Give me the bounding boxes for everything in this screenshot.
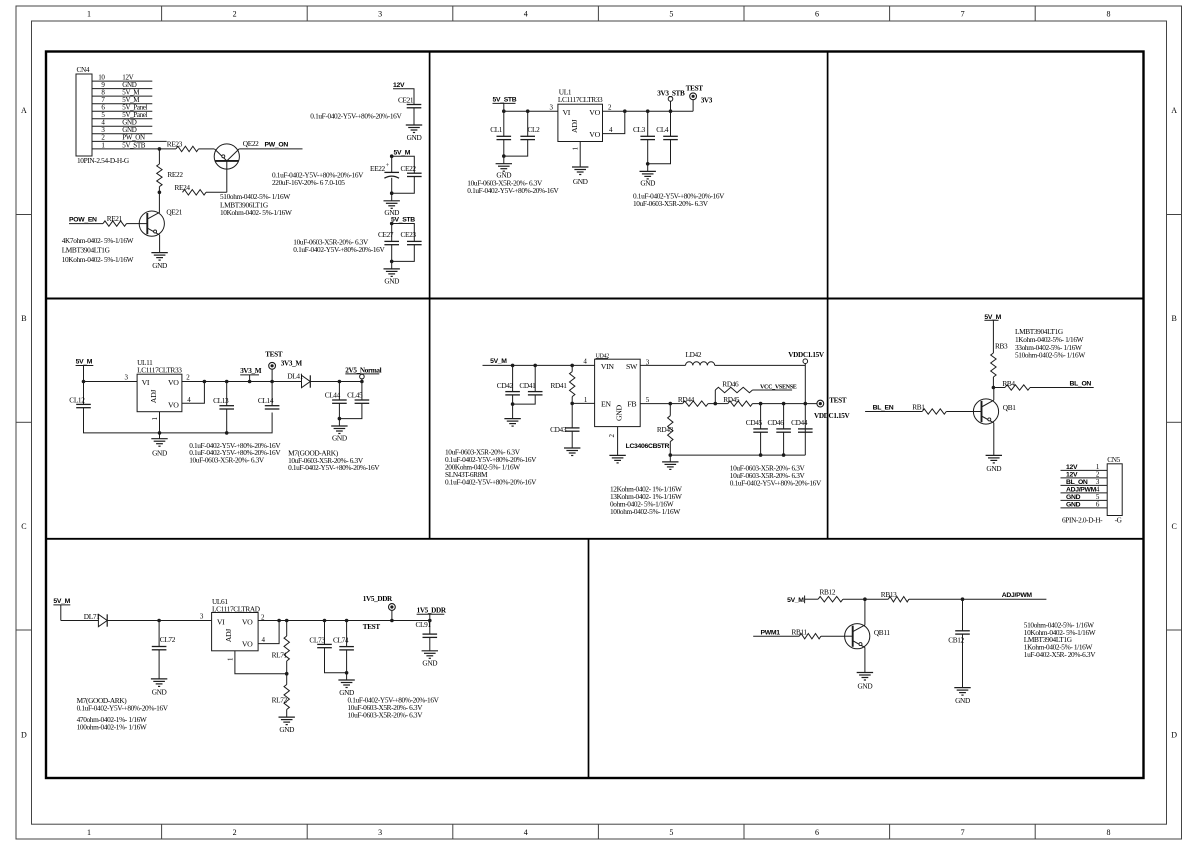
- svg-text:GND: GND: [1066, 494, 1081, 501]
- wire CL73 CL74 gnd: [325, 648, 349, 680]
- wire UL1 VO pin4: [603, 109, 627, 133]
- wire CL72 gnd: [158, 650, 160, 679]
- svg-text:SW: SW: [626, 362, 638, 371]
- capacitor CD46: [768, 404, 791, 456]
- testpoint TEST 1V5_DDR: [363, 595, 396, 631]
- wire UL61 VO pin4: [258, 621, 279, 644]
- resistor RD41: [551, 365, 575, 403]
- svg-text:CD45: CD45: [746, 418, 763, 427]
- wire input to UL1: [502, 109, 558, 113]
- wire RE23 to QE22: [199, 148, 215, 150]
- resistor RB4: [1002, 379, 1030, 390]
- capacitor CL2: [520, 111, 540, 139]
- IC UL11 LC1117CLTR33: [137, 358, 191, 421]
- testpoint TEST VDDC: [817, 396, 847, 407]
- svg-text:CL91: CL91: [416, 620, 432, 629]
- svg-text:LC1117CLTRAD: LC1117CLTRAD: [212, 604, 260, 613]
- capacitor CD44: [791, 418, 813, 432]
- svg-text:DL41: DL41: [287, 372, 303, 381]
- svg-text:VI: VI: [142, 378, 150, 387]
- wire QE22 base down: [226, 161, 228, 192]
- ground CE27: [384, 269, 400, 285]
- svg-text:EN: EN: [601, 400, 611, 409]
- svg-text:CE23: CE23: [401, 230, 417, 239]
- svg-text:GND: GND: [640, 178, 655, 187]
- IC UL61 LC1117CLTRAD: [212, 597, 266, 661]
- svg-text:5V_M: 5V_M: [53, 598, 70, 605]
- wire UL1 ADJ: [579, 142, 581, 168]
- IC UL1 LC1117CLTR33: [550, 88, 614, 151]
- svg-text:5V_STB: 5V_STB: [493, 97, 517, 104]
- svg-text:RL72: RL72: [272, 695, 288, 704]
- ground CL74: [338, 680, 354, 697]
- resistor RE22: [157, 149, 184, 192]
- svg-text:B: B: [1172, 314, 1177, 323]
- svg-text:5V_M: 5V_M: [984, 314, 1001, 321]
- svg-text:0.1uF-0402-Y5V-+80%-20%-16V: 0.1uF-0402-Y5V-+80%-20%-16V: [467, 186, 559, 195]
- resistor RE23: [167, 140, 199, 152]
- ground QB11: [857, 673, 873, 691]
- wire SW: [640, 364, 685, 366]
- svg-text:VDDC1.15V: VDDC1.15V: [814, 412, 851, 420]
- wire QE21 collector: [159, 211, 161, 213]
- wire UL61 ADJ: [235, 651, 289, 676]
- svg-text:VO: VO: [168, 378, 179, 387]
- svg-text:5V_STB: 5V_STB: [122, 141, 145, 149]
- wire CL91 gnd: [429, 637, 431, 650]
- svg-text:GND: GND: [986, 464, 1001, 473]
- svg-text:10uF-0603-X5R-20%- 6.3V: 10uF-0603-X5R-20%- 6.3V: [633, 199, 709, 208]
- svg-text:RD45: RD45: [723, 395, 740, 404]
- svg-text:CL12: CL12: [69, 395, 85, 404]
- svg-text:CL73: CL73: [309, 636, 325, 645]
- wire UD42 gnd pin: [617, 427, 619, 456]
- svg-text:RB13: RB13: [881, 590, 897, 599]
- transistor QE21: [139, 208, 183, 237]
- capacitor CE23: [401, 230, 422, 245]
- wire RE21 to QE21: [127, 223, 140, 225]
- capacitor CD43: [550, 403, 579, 434]
- svg-text:VI: VI: [563, 108, 571, 117]
- svg-text:LMBT3904LT1G: LMBT3904LT1G: [62, 246, 111, 255]
- connector CN5: [1061, 455, 1123, 524]
- svg-text:TEST: TEST: [363, 623, 381, 631]
- values CL3 CL4: [633, 192, 725, 208]
- capacitor CE27: [378, 224, 399, 245]
- label VCC_VSENSE: [753, 384, 797, 390]
- svg-text:10PIN-2.54-D-H-G: 10PIN-2.54-D-H-G: [77, 156, 130, 165]
- node 5V_STB input: [493, 97, 517, 112]
- svg-text:DL71: DL71: [84, 612, 100, 621]
- svg-text:RB1: RB1: [912, 402, 925, 411]
- ground CD42: [504, 419, 520, 427]
- svg-text:CL1: CL1: [490, 125, 503, 134]
- svg-text:A: A: [21, 106, 27, 115]
- IC UD42 LC3406CB5TR: [595, 353, 650, 437]
- svg-text:C: C: [21, 522, 26, 531]
- wire CL13 to bus: [226, 409, 228, 433]
- svg-text:GND: GND: [614, 404, 623, 421]
- values QE21 group: [62, 236, 134, 264]
- svg-text:GND: GND: [152, 448, 167, 457]
- svg-text:3V3: 3V3: [701, 97, 713, 105]
- node 5V_M ddr: [53, 598, 70, 621]
- node 5V_M: [390, 149, 414, 173]
- svg-text:10Kohm-0402- 5%-1/16W: 10Kohm-0402- 5%-1/16W: [220, 208, 292, 217]
- inductor LD42: [686, 350, 715, 365]
- svg-text:ADJ: ADJ: [224, 629, 233, 643]
- wire CL12 bottom bus: [84, 408, 273, 435]
- svg-text:3V3_M: 3V3_M: [281, 360, 303, 368]
- svg-text:0.1uF-0402-Y5V-+80%-20%-16V: 0.1uF-0402-Y5V-+80%-20%-16V: [310, 112, 402, 121]
- values QB11 group: [1024, 620, 1096, 659]
- capacitor CL14: [258, 382, 280, 410]
- values UL11 caps: [189, 441, 281, 465]
- svg-text:5V_M: 5V_M: [394, 149, 411, 156]
- capacitor CL1: [490, 111, 511, 139]
- wire UL11 output: [204, 380, 301, 384]
- wire POW_EN: [69, 217, 103, 224]
- capacitor CL45: [347, 382, 369, 404]
- svg-text:12V: 12V: [1066, 464, 1078, 471]
- capacitor CD41: [519, 365, 542, 395]
- wire QB11 collector: [864, 599, 866, 625]
- svg-text:RE22: RE22: [167, 170, 183, 179]
- resistor RB3: [991, 342, 1008, 388]
- svg-text:5: 5: [669, 10, 673, 19]
- capacitor CL74: [333, 621, 354, 650]
- node 5V_M QB1: [984, 314, 1001, 353]
- svg-text:3: 3: [378, 10, 382, 19]
- wire CL44 CL45 gnd: [338, 403, 362, 426]
- wire 5V_STB net: [158, 147, 176, 151]
- svg-text:POW_EN: POW_EN: [69, 217, 97, 224]
- wire QB1 emitter: [993, 423, 995, 456]
- svg-text:3V3_M: 3V3_M: [240, 367, 262, 375]
- svg-text:QE22: QE22: [243, 139, 259, 148]
- wire QE21 emitter: [159, 235, 161, 253]
- wire bottom bus: [669, 453, 806, 457]
- wire CD42 CD41 gnd: [511, 395, 535, 419]
- svg-text:TEST: TEST: [686, 85, 704, 93]
- values DL41 caps: [288, 448, 380, 472]
- svg-text:2: 2: [233, 10, 237, 19]
- capacitor CL4: [656, 111, 678, 139]
- ground QE21: [151, 253, 167, 270]
- node 5V_STB: [390, 217, 415, 242]
- svg-text:4: 4: [524, 10, 528, 19]
- svg-text:7: 7: [961, 10, 965, 19]
- wire CE27 CE23 gnd: [390, 245, 414, 269]
- wire EE22 CE22 gnd: [390, 177, 414, 196]
- svg-text:LC3406CB5TR: LC3406CB5TR: [626, 443, 670, 450]
- capacitor CL12: [69, 382, 91, 408]
- svg-text:QB11: QB11: [874, 628, 890, 637]
- wire FB: [640, 402, 672, 406]
- wire to DL71: [61, 620, 99, 622]
- wire UL11 VO pin4: [182, 380, 206, 404]
- node 5V_M input: [76, 359, 94, 382]
- svg-text:ADJ: ADJ: [149, 390, 158, 404]
- label 3V3_M right: [281, 360, 303, 368]
- testpoint TEST 3V3_M: [265, 351, 283, 382]
- svg-text:7: 7: [961, 828, 965, 837]
- connector CN4: [76, 65, 167, 165]
- label LC3406CB5TR: [626, 443, 670, 450]
- wire DL41 to CL44: [310, 380, 363, 384]
- svg-text:A: A: [1171, 106, 1177, 115]
- svg-text:GND: GND: [573, 177, 588, 186]
- resistor RD44: [670, 395, 715, 406]
- wire UL11 VO pin2: [182, 381, 205, 383]
- svg-text:GND: GND: [279, 725, 294, 734]
- svg-text:GND: GND: [152, 688, 167, 697]
- svg-text:VO: VO: [242, 639, 253, 648]
- svg-text:4: 4: [524, 828, 528, 837]
- resistor RB11: [792, 627, 821, 639]
- resistor RB12: [818, 587, 843, 602]
- svg-text:CL44: CL44: [325, 391, 341, 400]
- diode DL41: [287, 372, 310, 388]
- resistor RE24: [175, 183, 207, 195]
- svg-text:10Kohm-0402- 5%-1/16W: 10Kohm-0402- 5%-1/16W: [62, 255, 134, 264]
- svg-text:CL3: CL3: [633, 125, 646, 134]
- wire input to UL11: [82, 374, 137, 384]
- svg-text:C: C: [1172, 522, 1177, 531]
- wire UL1 output: [625, 109, 693, 113]
- svg-text:RD44: RD44: [678, 395, 695, 404]
- svg-text:CE22: CE22: [401, 164, 417, 173]
- capacitor CE22: [401, 164, 422, 177]
- svg-text:GND: GND: [422, 658, 437, 667]
- svg-text:VO: VO: [589, 130, 600, 139]
- svg-text:2: 2: [233, 828, 237, 837]
- wire RB1 to QB1: [946, 411, 973, 413]
- svg-text:CE21: CE21: [398, 96, 414, 105]
- port VDDC1.15V: [788, 351, 825, 365]
- svg-text:5V_M: 5V_M: [76, 359, 93, 366]
- svg-text:EE22: EE22: [370, 164, 386, 173]
- transistor QB1: [973, 399, 1016, 424]
- svg-text:5V_M: 5V_M: [490, 358, 507, 365]
- wire PW_ON: [239, 142, 302, 149]
- svg-text:5V_M: 5V_M: [787, 597, 804, 604]
- svg-text:0.1uF-0402-Y5V-+80%-20%-16V: 0.1uF-0402-Y5V-+80%-20%-16V: [288, 463, 380, 472]
- resistor RD43: [657, 404, 674, 456]
- resistor RL72: [272, 674, 290, 717]
- wire gnd stub: [391, 193, 393, 201]
- values CL1 CL2: [467, 179, 559, 195]
- svg-text:D: D: [1171, 730, 1177, 739]
- svg-text:RD41: RD41: [551, 381, 568, 390]
- wire RB4 node: [992, 386, 1005, 390]
- svg-text:6PIN-2.0-D-H-: 6PIN-2.0-D-H-: [1062, 515, 1103, 524]
- svg-text:VI: VI: [217, 617, 225, 626]
- ground EE22: [384, 201, 400, 217]
- svg-text:GND: GND: [1066, 501, 1081, 508]
- svg-text:CL74: CL74: [333, 636, 349, 645]
- svg-text:RB4: RB4: [1002, 379, 1015, 388]
- wire BL_ON: [1030, 381, 1094, 388]
- svg-text:LD42: LD42: [686, 350, 702, 359]
- wire CE21 to gnd: [413, 108, 415, 125]
- svg-text:RE21: RE21: [107, 214, 123, 223]
- svg-text:GND: GND: [152, 261, 167, 270]
- ground UL1 ADJ: [572, 167, 588, 186]
- svg-text:3: 3: [378, 828, 382, 837]
- values EE22 CE22: [272, 171, 364, 188]
- label 3V3_M stub: [240, 367, 262, 382]
- svg-text:CL4: CL4: [656, 125, 669, 134]
- svg-text:-G: -G: [1115, 515, 1123, 524]
- svg-text:CD42: CD42: [497, 381, 514, 390]
- svg-text:1: 1: [87, 10, 91, 19]
- ground QB1: [986, 455, 1002, 473]
- svg-text:BL_EN: BL_EN: [873, 404, 894, 411]
- capacitor CL91: [416, 620, 438, 637]
- svg-text:220uF-16V-20%- 6 7.0-105: 220uF-16V-20%- 6 7.0-105: [272, 178, 345, 187]
- svg-text:CL13: CL13: [213, 396, 229, 405]
- wire UL11 ADJ: [159, 412, 161, 439]
- svg-text:GND: GND: [332, 433, 347, 442]
- wire CL1 CL2 gnd: [502, 140, 528, 164]
- values CE27 CE23: [293, 238, 385, 254]
- svg-text:RE24: RE24: [175, 183, 191, 192]
- svg-text:100ohm-0402-1%- 1/16W: 100ohm-0402-1%- 1/16W: [77, 723, 147, 732]
- svg-text:10uF-0603-X5R-20%- 6.3V: 10uF-0603-X5R-20%- 6.3V: [189, 456, 265, 465]
- values QB1 group: [1015, 327, 1085, 359]
- svg-text:RE23: RE23: [167, 140, 183, 149]
- wire BL_EN: [865, 404, 922, 411]
- wire CD43 gnd: [571, 431, 573, 448]
- svg-text:VCC_VSENSE: VCC_VSENSE: [760, 384, 797, 390]
- values buck left: [445, 448, 537, 487]
- resistor RB1: [912, 402, 946, 414]
- svg-text:ADJ: ADJ: [570, 119, 579, 133]
- wire UL61 output: [287, 619, 432, 623]
- ground RD43: [662, 455, 678, 469]
- resistor RB13: [865, 590, 909, 602]
- node 12V: [393, 82, 414, 105]
- svg-text:4K7ohm-0402- 5%-1/16W: 4K7ohm-0402- 5%-1/16W: [62, 236, 134, 245]
- svg-text:CD44: CD44: [791, 418, 808, 427]
- values CE21: [310, 112, 402, 121]
- svg-text:12V: 12V: [1066, 471, 1078, 478]
- wire RB11 to QB11: [821, 635, 845, 637]
- wire RB12 to node: [843, 597, 867, 601]
- wire ADJ/PWM: [909, 592, 1047, 601]
- capacitor CE21: [398, 96, 421, 108]
- capacitor CL13: [213, 382, 234, 410]
- node 5V_M buck: [483, 358, 595, 368]
- junction node: [158, 191, 162, 213]
- wire EN: [570, 396, 594, 405]
- ground CL72: [151, 679, 167, 697]
- svg-text:ADJ/PWM: ADJ/PWM: [1002, 592, 1033, 599]
- svg-text:CL14: CL14: [258, 396, 274, 405]
- values QE22 group: [220, 192, 292, 217]
- svg-text:GND: GND: [384, 276, 399, 285]
- svg-text:VO: VO: [242, 617, 253, 626]
- svg-text:QB1: QB1: [1003, 403, 1016, 412]
- svg-text:10uF-0603-X5R-20%- 6.3V: 10uF-0603-X5R-20%- 6.3V: [348, 710, 424, 719]
- svg-text:LC1117CLTR33: LC1117CLTR33: [137, 365, 182, 374]
- svg-text:6: 6: [815, 10, 819, 19]
- values buck right: [730, 464, 822, 488]
- ground CL91: [422, 651, 438, 668]
- svg-text:510ohm-0402-5%- 1/16W: 510ohm-0402-5%- 1/16W: [1015, 351, 1085, 360]
- svg-text:RL71: RL71: [272, 650, 288, 659]
- ground CL44: [331, 426, 347, 442]
- svg-text:CD46: CD46: [768, 418, 785, 427]
- svg-text:RB11: RB11: [792, 627, 808, 636]
- svg-text:CL2: CL2: [528, 125, 541, 134]
- svg-text:CN5: CN5: [1107, 455, 1120, 464]
- svg-text:100ohm-0402-5%- 1/16W: 100ohm-0402-5%- 1/16W: [610, 507, 680, 516]
- svg-text:VO: VO: [589, 108, 600, 117]
- svg-text:1V5_DDR: 1V5_DDR: [363, 595, 393, 603]
- resistor RD46: [714, 380, 753, 406]
- svg-text:PW_ON: PW_ON: [265, 142, 289, 149]
- svg-text:1uF-0402-X5R- 20%-6.3V: 1uF-0402-X5R- 20%-6.3V: [1024, 650, 1096, 659]
- svg-text:RB12: RB12: [820, 587, 836, 596]
- ground CL3: [640, 171, 656, 187]
- capacitor CD42: [497, 365, 520, 395]
- ground RL72: [279, 717, 295, 734]
- resistor RD45: [715, 395, 752, 406]
- port 2V5_Normal: [345, 367, 381, 382]
- ground CL1: [496, 164, 512, 180]
- svg-text:5V_STB: 5V_STB: [391, 217, 415, 224]
- svg-text:0.1uF-0402-Y5V-+80%-20%-16V: 0.1uF-0402-Y5V-+80%-20%-16V: [293, 245, 385, 254]
- svg-text:CE27: CE27: [378, 230, 394, 239]
- capacitor CD45: [746, 404, 768, 456]
- ground CB12: [954, 688, 970, 705]
- svg-text:FB: FB: [627, 400, 636, 409]
- svg-text:0.1uF-0402-Y5V-+80%-20%-16V: 0.1uF-0402-Y5V-+80%-20%-16V: [445, 477, 537, 486]
- svg-text:CD41: CD41: [519, 381, 536, 390]
- resistor RL71: [272, 621, 290, 674]
- wire UL1 VO pin2: [603, 110, 625, 112]
- label VDDC1.15V test: [814, 412, 851, 420]
- svg-text:GND: GND: [407, 133, 422, 142]
- svg-text:ADJ/PWM: ADJ/PWM: [1066, 486, 1097, 493]
- wire LD42 to VDDC: [715, 364, 806, 366]
- values DL71 CL72: [77, 696, 169, 732]
- svg-text:GND: GND: [858, 681, 873, 690]
- svg-text:2V5_Normal: 2V5_Normal: [345, 367, 381, 375]
- svg-text:0.1uF-0402-Y5V-+80%-20%-16V: 0.1uF-0402-Y5V-+80%-20%-16V: [730, 479, 822, 488]
- svg-text:VO: VO: [168, 400, 179, 409]
- svg-text:VIN: VIN: [601, 362, 615, 371]
- svg-text:QE21: QE21: [166, 208, 182, 217]
- svg-text:6: 6: [815, 828, 819, 837]
- svg-text:12V: 12V: [393, 82, 405, 89]
- capacitor CB12: [948, 599, 970, 644]
- svg-text:8: 8: [1106, 828, 1110, 837]
- svg-text:8: 8: [1106, 10, 1110, 19]
- wire VDDC vertical: [804, 365, 808, 455]
- testpoint TEST 3V3: [686, 85, 704, 112]
- svg-text:CL45: CL45: [347, 391, 363, 400]
- svg-text:PWM1: PWM1: [761, 629, 781, 636]
- svg-text:TEST: TEST: [265, 351, 283, 359]
- wire PWM1: [753, 629, 799, 636]
- svg-text:BL_ON: BL_ON: [1070, 381, 1092, 388]
- port 3V3_STB: [657, 89, 685, 111]
- wire UL61 VO pin2: [258, 619, 288, 623]
- wire QB1 collector: [993, 388, 995, 401]
